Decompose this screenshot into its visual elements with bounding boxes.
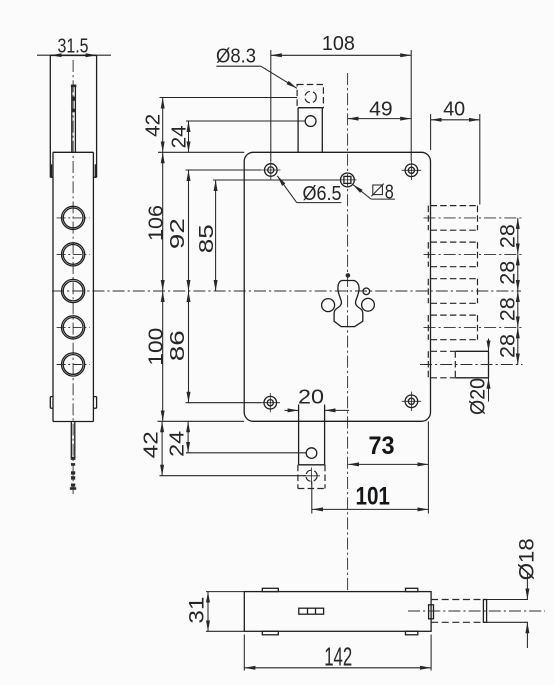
- svg-text:101: 101: [355, 482, 390, 510]
- corner hole bottom-right: [402, 392, 421, 411]
- dimension D18: [515, 538, 538, 648]
- svg-text:49: 49: [369, 99, 393, 121]
- svg-text:Ø18: Ø18: [515, 538, 538, 580]
- keyhole small circle: [363, 288, 370, 295]
- bolt 2 hidden: [424, 242, 523, 267]
- top tab: [298, 108, 322, 153]
- dimension 108: [271, 33, 411, 161]
- body top extension: [158, 151, 244, 153]
- svg-text:42: 42: [141, 431, 163, 458]
- dimension 85: [196, 180, 340, 291]
- svg-text:108: 108: [322, 33, 355, 55]
- svg-text:Ø20: Ø20: [466, 378, 489, 415]
- bottom view tabs: [262, 588, 418, 635]
- label D6.5 with leader: [277, 176, 341, 205]
- svg-text:85: 85: [196, 224, 218, 253]
- keyhole cutout: [334, 281, 363, 327]
- bottom tab hidden hole: [303, 468, 320, 485]
- svg-text:8: 8: [385, 181, 394, 203]
- corner hole top-left: [261, 160, 280, 179]
- body bottom extension: [158, 420, 245, 422]
- bottom side tabs: [50, 397, 96, 409]
- dimension 92: [167, 170, 261, 291]
- svg-text:40: 40: [443, 99, 465, 121]
- dimension 86: [167, 291, 261, 403]
- faceplate notch lines: [52, 164, 96, 177]
- label square 8 with leader: [353, 181, 395, 203]
- dimension 100: [145, 291, 167, 421]
- bottom view slot detail: [299, 608, 324, 614]
- svg-text:86: 86: [167, 330, 189, 361]
- dimension D20: [466, 339, 489, 416]
- follower hole 5: [57, 353, 90, 376]
- dimension 40: [431, 99, 480, 205]
- top tab hidden hole: [305, 91, 316, 102]
- svg-text:24: 24: [166, 431, 188, 457]
- bottom tab hole: [306, 448, 317, 459]
- keyhole left circle: [322, 299, 335, 312]
- dimension 24 bottom: [166, 421, 306, 457]
- bottom tab: [299, 405, 325, 465]
- svg-text:31: 31: [185, 597, 208, 624]
- bottom view case: [244, 592, 431, 632]
- strip vertical centreline: [72, 60, 74, 494]
- dimension 28 #4: [496, 327, 519, 364]
- keyhole right circle: [362, 298, 375, 311]
- bolt 1 hidden: [424, 206, 523, 231]
- top tab hole: [305, 116, 316, 127]
- corner hole top-right: [402, 161, 421, 180]
- follower hole 3: [62, 279, 85, 302]
- dimension 49: [348, 99, 412, 121]
- svg-text:28: 28: [496, 261, 519, 285]
- dimension 101 bold: [312, 482, 429, 514]
- svg-text:28: 28: [496, 334, 519, 358]
- keyhole dot: [346, 273, 351, 278]
- svg-text:28: 28: [496, 297, 519, 321]
- round bolt D20: [420, 351, 523, 378]
- dimension 28 #1: [496, 218, 519, 255]
- follower hole 4: [57, 316, 90, 339]
- main vertical centreline: [347, 73, 349, 592]
- svg-text:Ø6.5: Ø6.5: [303, 183, 342, 205]
- dimension 106: [146, 152, 168, 291]
- dimension 142: [244, 635, 431, 672]
- dimension 73 bold: [348, 432, 428, 464]
- dimension 24 top: [168, 121, 305, 152]
- svg-text:100: 100: [145, 328, 167, 366]
- svg-text:Ø8.3: Ø8.3: [216, 46, 256, 68]
- lock case side strip: [53, 152, 93, 421]
- dimension 42 top: [142, 98, 297, 153]
- dimension 42 bottom: [141, 421, 306, 475]
- cylinder end cap: [483, 600, 486, 623]
- bottom tab hidden box: [298, 465, 325, 489]
- dimension 28 #2: [496, 254, 519, 291]
- square spindle hole: [338, 173, 356, 187]
- right extension line: [427, 421, 429, 513]
- top tab hidden box: [297, 85, 323, 108]
- bolt 4 hidden: [424, 315, 523, 340]
- svg-text:20: 20: [298, 387, 324, 409]
- faceplate top box: [50, 56, 96, 178]
- cylinder hidden lines: [431, 600, 484, 623]
- spindle rod bottom: [70, 422, 76, 490]
- dimension 31.5 faceplate width: [37, 35, 111, 57]
- svg-text:31.5: 31.5: [58, 35, 89, 57]
- svg-text:24: 24: [168, 125, 190, 148]
- label D8.3 with leader: [216, 46, 297, 89]
- spindle rod top: [71, 85, 77, 153]
- dimension 28 #3: [496, 291, 519, 327]
- svg-text:92: 92: [167, 218, 189, 249]
- svg-text:142: 142: [324, 642, 352, 672]
- svg-text:106: 106: [146, 205, 168, 241]
- cylinder extension lines: [487, 600, 528, 623]
- corner hole bottom-left: [261, 393, 280, 412]
- dimension 20: [285, 387, 350, 411]
- svg-text:42: 42: [142, 114, 164, 137]
- cylinder centreline: [408, 610, 545, 612]
- cylinder hub: [429, 605, 434, 619]
- follower hole 1: [57, 206, 90, 229]
- svg-text:73: 73: [369, 432, 395, 460]
- bolt 3 hidden: [428, 279, 477, 304]
- lock body plate: [244, 152, 430, 421]
- main horizontal centreline: [52, 290, 521, 292]
- svg-text:28: 28: [496, 224, 519, 248]
- dimension 31: [185, 592, 244, 632]
- follower hole 2: [57, 243, 90, 266]
